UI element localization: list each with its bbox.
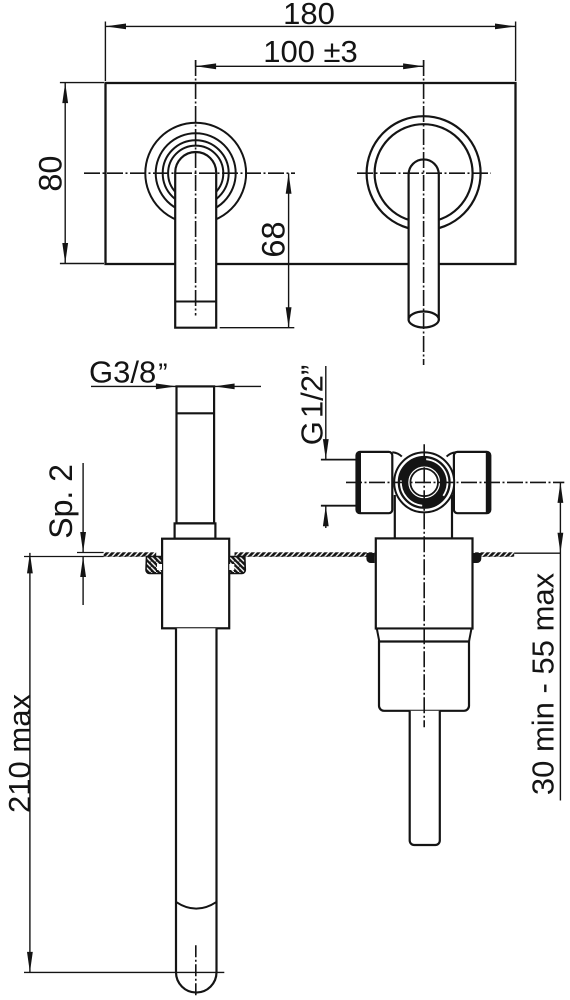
wall bottom line left (210 extension) bbox=[24, 556, 104, 558]
valve taper band bbox=[377, 629, 472, 642]
valve outlet tube bbox=[410, 711, 440, 845]
svg-text:80: 80 bbox=[33, 156, 69, 192]
valve seal right bbox=[473, 553, 481, 563]
valve saddle fillet left bbox=[392, 452, 402, 456]
handle escutcheon circles (top view) bbox=[367, 116, 481, 230]
centerline horizontal left circle bbox=[84, 172, 295, 174]
dimension 210 max line bbox=[29, 553, 31, 973]
wall top line left bbox=[77, 552, 104, 554]
spout rounded end (side view) bbox=[176, 972, 217, 992]
dimension 68 line bbox=[288, 173, 290, 327]
wall hatched band left bbox=[104, 552, 157, 557]
valve saddle fillet right bbox=[447, 452, 457, 456]
valve vertical centerline bbox=[423, 444, 425, 727]
wall line right (30-55 extension) bbox=[514, 552, 560, 554]
dimension 180 extension lines bbox=[104, 22, 106, 82]
svg-text:Sp. 2: Sp. 2 bbox=[43, 464, 79, 539]
valve neck bbox=[395, 495, 452, 538]
valve right nut bbox=[454, 452, 490, 513]
wall hatched band right bbox=[474, 552, 515, 557]
dimension 80 line bbox=[64, 83, 66, 264]
svg-text:68: 68 bbox=[256, 221, 292, 257]
G3/8 inlet pipe (side view) bbox=[177, 386, 215, 523]
valve port dark ring bbox=[403, 461, 445, 503]
svg-text:G1/2”: G1/2” bbox=[295, 365, 330, 446]
spout seal right bbox=[229, 557, 245, 574]
dimension 80 extension lines bbox=[60, 82, 104, 84]
inlet collar bbox=[175, 523, 216, 538]
valve flange bbox=[376, 538, 473, 628]
valve horizontal centerline bbox=[346, 481, 564, 483]
valve seal left bbox=[366, 553, 374, 563]
dimension Sp.2 lower leg bbox=[82, 557, 84, 606]
210 max bottom extension line bbox=[24, 971, 224, 973]
dimension G3/8 leader bbox=[91, 385, 177, 387]
dimension 180 line bbox=[105, 25, 515, 27]
svg-text:G3/8”: G3/8” bbox=[89, 355, 168, 390]
spout seal left bbox=[146, 557, 162, 574]
spout tip joint line bbox=[175, 301, 216, 303]
valve left nut bbox=[357, 452, 393, 513]
centerline vertical left circle bbox=[195, 60, 197, 316]
svg-text:30 min - 55 max: 30 min - 55 max bbox=[526, 572, 561, 795]
ring highlight arc lower left bbox=[401, 480, 422, 505]
handle lever end ellipse bbox=[409, 312, 439, 328]
spout escutcheon circles (top view) bbox=[145, 123, 246, 224]
dimension 68 extension line bbox=[220, 327, 295, 329]
spout tube (top view front) bbox=[175, 152, 216, 328]
svg-text:210 max: 210 max bbox=[2, 694, 37, 813]
dimension Sp.2 upper leg bbox=[82, 463, 84, 553]
spout body block (side view) bbox=[162, 539, 229, 629]
G3/8 thread line bbox=[177, 412, 215, 414]
dimension 30min-55max line bbox=[559, 482, 561, 800]
valve G1/2 stub lines bbox=[321, 459, 357, 461]
valve cartridge outer circle bbox=[394, 452, 454, 512]
ring highlight arc upper right bbox=[426, 459, 447, 496]
spout curve joint arc bbox=[176, 902, 217, 909]
wall plate (top view) bbox=[106, 83, 516, 264]
spout end centerline bbox=[195, 945, 197, 996]
valve port inner circle bbox=[410, 469, 438, 497]
dimension G1/2 legs bbox=[325, 366, 327, 460]
svg-text:180: 180 bbox=[283, 0, 335, 31]
centerline horizontal right circle bbox=[357, 172, 491, 174]
handle lever (top view) bbox=[409, 159, 439, 319]
valve lower body bbox=[379, 642, 469, 711]
centerline vertical right circle bbox=[423, 60, 425, 365]
spout tube (side view) bbox=[176, 628, 217, 972]
wall hatched band middle bbox=[235, 552, 375, 557]
dimension 100±3 line bbox=[195, 60, 197, 66]
svg-text:100 ±3: 100 ±3 bbox=[263, 34, 358, 69]
